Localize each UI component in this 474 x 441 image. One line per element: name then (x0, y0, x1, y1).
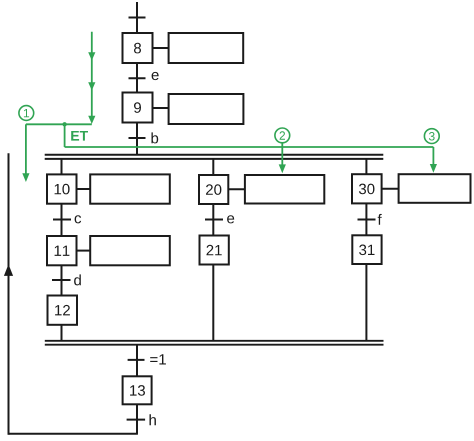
step 12 label (55, 305, 70, 316)
parallel split bar upper line (45, 154, 384, 156)
step 30 label (359, 184, 375, 195)
wire step8 to step9 (136, 63, 138, 92)
step 21 (200, 236, 229, 265)
wire step31 to join bar (365, 264, 367, 342)
green wire down from callout 1 (25, 124, 27, 173)
action box for step 30 (399, 174, 471, 203)
green arrowhead at ET junction (88, 116, 95, 124)
wire step13 down (136, 404, 138, 434)
transition b label (152, 132, 159, 143)
transition =1 tick (128, 359, 145, 361)
green arrow line from top (91, 32, 93, 116)
parallel join bar upper line (45, 340, 384, 342)
transition e2 tick (205, 219, 223, 221)
action box for step 9 (169, 94, 244, 124)
wire join bar to step 13 (136, 345, 138, 377)
transition c tick (53, 219, 71, 221)
transition h tick (127, 419, 146, 421)
transition d tick (52, 279, 71, 281)
step 20 label (206, 184, 221, 195)
junction dot green (62, 122, 66, 126)
transition d label (74, 274, 81, 285)
step 31 label (359, 245, 374, 256)
wire left return vertical (8, 153, 10, 435)
step 13 label (130, 385, 145, 396)
green arrowhead callout1 (22, 173, 29, 182)
callout 3 label (429, 132, 435, 141)
step 20 (199, 175, 228, 204)
green arrowhead callout2 (279, 164, 286, 173)
action box for step 8 (169, 33, 244, 63)
action box for step 10 (90, 174, 170, 203)
green wire callout2 down (281, 143, 283, 165)
wire step11 to action (77, 250, 91, 252)
transition e tick (129, 77, 146, 79)
wire step9 to action (154, 107, 169, 109)
transition e2 label (227, 215, 234, 223)
parallel join bar lower line (45, 344, 384, 346)
wire top entry (136, 2, 138, 32)
step 11 (47, 236, 77, 265)
green arrowhead mid 1 (88, 52, 95, 60)
step 21 label (207, 245, 222, 256)
transition tick above step 8 (129, 17, 146, 19)
transition f tick (358, 219, 376, 221)
callout 1 label (24, 109, 29, 117)
wire step21 to join bar (212, 265, 214, 342)
green arrowhead callout3 (430, 164, 437, 173)
callout 2 label (280, 131, 285, 139)
action box for step 20 (245, 175, 324, 204)
step 30 (352, 174, 382, 203)
wire step20 to step21 (212, 204, 214, 236)
callout circle 1 (19, 106, 34, 121)
wire step20 to action (228, 188, 245, 190)
green wire callout1 to arrow line (26, 123, 92, 125)
wire split to step 20 (212, 159, 214, 175)
wire step30 to action (382, 188, 399, 190)
wire step9 to split bar (136, 123, 138, 156)
green arrowhead mid 2 (88, 82, 95, 90)
wire step30 to step31 (365, 203, 367, 235)
callout circle 3 (424, 129, 439, 144)
green wire junction down to ET line (64, 124, 66, 147)
transition h label (150, 414, 156, 425)
ET label (71, 131, 88, 141)
green long horizontal wire (65, 146, 434, 148)
step 10 label (55, 184, 70, 195)
wire step10 to step11 (61, 204, 63, 236)
step 9 label (134, 102, 141, 113)
transition b tick (129, 137, 146, 139)
transition =1 label (150, 354, 166, 364)
transition f label (378, 214, 382, 225)
parallel split bar lower line (45, 158, 384, 160)
step 12 (48, 296, 78, 325)
callout circle 2 (275, 128, 290, 143)
step 11 label (55, 246, 70, 256)
step 9 (123, 93, 153, 123)
action box for step 11 (90, 236, 170, 265)
wire bottom return horizontal (9, 433, 138, 435)
wire step8 to action (154, 47, 169, 49)
transition e label (152, 72, 159, 80)
transition c label (75, 215, 82, 223)
wire split to step 10 (61, 159, 63, 175)
wire step12 to join bar (61, 325, 63, 342)
green wire callout3 down (432, 147, 434, 165)
wire step11 to step12 (61, 265, 63, 295)
wire split to step 30 (365, 159, 367, 175)
wire step10 to action (77, 188, 91, 190)
step 31 (352, 235, 381, 264)
step 8 (123, 33, 153, 63)
step 8 label (134, 43, 141, 54)
step 13 (123, 376, 152, 404)
step 10 (47, 174, 77, 203)
arrowhead on return wire (4, 264, 13, 276)
